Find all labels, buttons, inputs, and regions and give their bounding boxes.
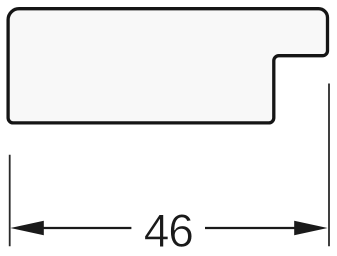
svg-text:46: 46 — [144, 205, 193, 256]
